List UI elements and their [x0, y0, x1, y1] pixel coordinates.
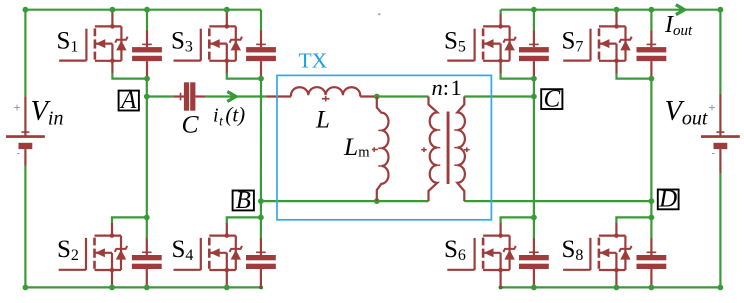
svg-text:D: D — [658, 186, 677, 213]
svg-text:n:1: n:1 — [432, 75, 462, 100]
svg-text:+: + — [14, 101, 21, 115]
svg-text:B: B — [236, 187, 251, 214]
svg-text:S8: S8 — [562, 236, 584, 264]
svg-text:Iout: Iout — [664, 12, 693, 39]
svg-text:S1: S1 — [57, 27, 79, 55]
svg-text:S6: S6 — [444, 236, 466, 264]
svg-text:it(t): it(t) — [213, 103, 245, 129]
svg-text:L: L — [315, 107, 330, 134]
svg-text:Vin: Vin — [31, 96, 64, 130]
svg-text:S3: S3 — [171, 27, 193, 55]
svg-text:-: - — [712, 148, 716, 160]
svg-text:S5: S5 — [444, 27, 466, 55]
svg-text:C: C — [182, 110, 200, 139]
svg-text:-: - — [17, 148, 21, 160]
svg-text:A: A — [119, 87, 137, 114]
svg-text:C: C — [543, 85, 560, 112]
svg-text:+: + — [709, 101, 716, 115]
svg-text:S2: S2 — [57, 236, 79, 264]
svg-text:Lm: Lm — [343, 132, 370, 161]
svg-text:S4: S4 — [172, 236, 194, 264]
svg-text:S7: S7 — [562, 27, 584, 55]
svg-text:Vout: Vout — [665, 96, 708, 130]
svg-text:TX: TX — [299, 49, 328, 73]
